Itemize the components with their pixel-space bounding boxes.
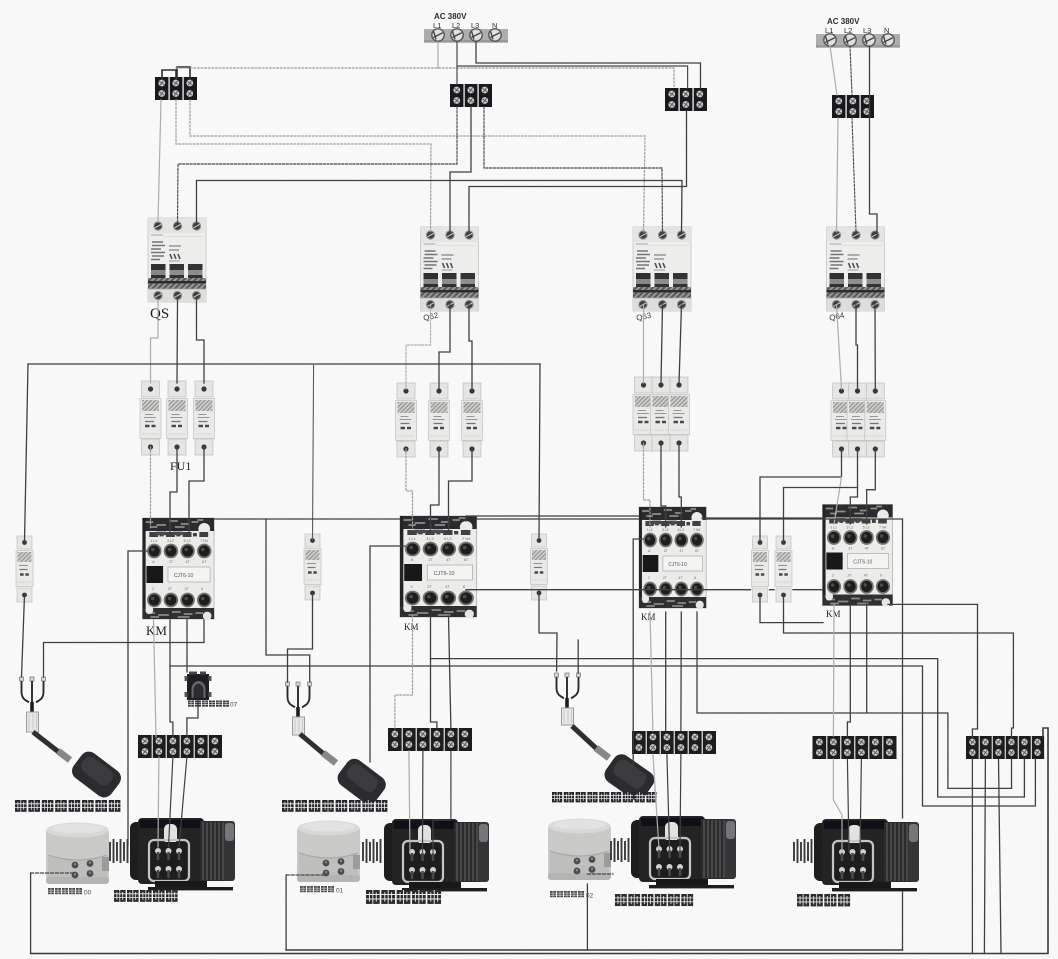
wire block2 to Q62 top-middle <box>450 107 471 233</box>
wire KM2 col2 to strip2 <box>431 659 437 728</box>
wire KM2 col2 long line to far strip <box>431 616 1025 797</box>
float sensor 1 rod and ball <box>33 732 125 801</box>
wire strip1 to motor1 pin1 <box>157 757 160 847</box>
wire strip4 to motor4 pin2 <box>847 759 849 852</box>
label thermal relay 02 <box>550 891 594 900</box>
thermal relay 02 <box>548 819 611 881</box>
circuit breaker Q64 <box>827 227 885 311</box>
coupling spring 2 <box>363 839 381 863</box>
label backup motor <box>797 894 850 906</box>
terminal strip ch4 <box>813 736 897 759</box>
label low water float sensor <box>15 800 120 812</box>
label high water motor <box>366 890 441 904</box>
contactor KM2 <box>400 516 477 618</box>
wire KM2 top right to KM3 <box>466 516 639 521</box>
wire switch 07 to strip1 <box>187 700 198 737</box>
wire control fuse ch4a to KM4 coil <box>760 595 823 623</box>
control fuse FU ch2 <box>304 534 321 600</box>
wire L1 strip1 down <box>437 42 439 68</box>
terminal block group 1 <box>155 77 197 100</box>
wire Q63 bottom-middle to fuse3 middle <box>661 305 663 383</box>
wire block1 to QS top-left <box>158 100 161 222</box>
wire dashed relay1 <box>31 872 75 874</box>
circuit breaker Q62 <box>421 227 479 311</box>
wire L2 stub to block2 <box>456 66 458 84</box>
wire strip4 to motor4 pin3 <box>860 759 861 852</box>
wire strip3 to motor3 pin1 light <box>653 754 659 849</box>
wire dashed block2 to Q63 top-middle <box>484 107 663 233</box>
wire strip2 to motor2 pin3 <box>433 751 451 852</box>
power terminal strip AC 380V (left) <box>424 12 508 43</box>
wire KM1 coil feed left <box>128 551 147 845</box>
terminal block group 3 <box>665 88 707 111</box>
wire strip1 to motor1 pin2 <box>169 757 173 847</box>
wire KM3 coil feed left <box>633 539 643 768</box>
wire block4 to Q64 top-middle <box>852 118 856 232</box>
contactor KM3 <box>639 507 706 609</box>
float sensor 2 rod and ball <box>300 734 389 808</box>
wire strip2 L3 to Q64 top-right <box>870 46 878 236</box>
terminal strip ch1 <box>138 735 222 758</box>
wire fuse4 middle tee to control fuse ch4b <box>784 449 858 542</box>
wire KM2 col4 to KM4 <box>466 589 823 591</box>
wire KM1 col2 to strip1 <box>170 666 173 737</box>
wire relay3 riser <box>586 884 588 950</box>
wire QS bottom-right to FU1 right <box>197 300 205 383</box>
fuse group 2 <box>396 383 417 457</box>
wire KM3 col2 to strip3 <box>665 612 667 731</box>
motor low water <box>130 818 235 890</box>
wire fuse4 middle to KM4 col2 <box>850 488 857 525</box>
wire control fuse ch3 to float3 <box>539 593 557 671</box>
wire L2 strip1 to block3 top-middle <box>457 42 688 88</box>
fuse group FU1 <box>140 381 161 455</box>
terminal block group 4 <box>832 95 874 118</box>
coupling spring 1 <box>110 839 128 863</box>
wire fuse4 right to KM4 col3 <box>867 449 876 524</box>
motor alarm water <box>631 816 736 888</box>
coupling spring 4 <box>794 839 812 863</box>
wire fuse4 left to KM4 col1 <box>834 477 842 524</box>
wire far strip drop 1 <box>971 759 973 954</box>
wire strip2 L1 to block4 <box>830 46 837 95</box>
wire KM4 bottom right to far strip <box>888 604 978 737</box>
label thermal relay 01 <box>300 886 344 895</box>
wire KM2 col1 to strip2 dotted <box>395 616 413 728</box>
terminal strip far right <box>966 736 1044 759</box>
power terminal strip AC 380V (right) <box>816 17 900 48</box>
wire fuse3 right to KM3 col3 <box>679 443 681 527</box>
label alarm water float sensor <box>552 792 657 802</box>
wire fuse3 left to KM3 col1 dotted <box>644 443 651 527</box>
wire Q62 bottom-left to fuse2 left <box>406 305 431 389</box>
label for switch 07 <box>188 701 238 709</box>
contactor KM1 <box>143 518 215 620</box>
wire block4 to Q64 top-left <box>837 118 839 232</box>
wire QS top-right to Q63 top-right <box>197 181 683 234</box>
contactor KM4 <box>823 505 893 607</box>
wire far strip drop 3 <box>999 759 1002 954</box>
wire strip2 to motor2 pin2 <box>422 751 424 852</box>
wire dashed relay2 <box>286 874 326 876</box>
wire KM4 col2 to strip4 <box>847 604 850 736</box>
control fuse FU ch4a <box>752 536 769 602</box>
wire float1 to KM1 col4 <box>44 620 205 677</box>
wire strip2 to motor2 pin1 light <box>409 751 410 852</box>
wire KM1 col1 to strip1 light <box>154 620 157 737</box>
float sensor 1 hanger <box>20 677 46 732</box>
wire FU1 left to KM1 col1 dotted <box>150 447 152 528</box>
wire control bus to fuse ch2 <box>313 364 314 540</box>
wire fuse4 left tee to control fuse ch4a <box>760 449 842 542</box>
wire KM3 col3 to strip3 <box>680 612 682 731</box>
wire fuse2 right to KM2 col3 <box>449 449 473 530</box>
wire KM3 right to KM4 <box>702 517 823 519</box>
thermal relay 01 <box>297 821 360 883</box>
wire strip3 to motor3 pin2 <box>667 754 670 849</box>
float sensor 3 rod and ball <box>572 726 658 804</box>
label alarm water motor <box>615 894 693 906</box>
control fuse FU ch1 <box>16 536 33 602</box>
wire dashed relay3 <box>587 873 613 875</box>
wire loop KM1 right to far bottom <box>214 519 903 950</box>
label low water motor <box>114 890 178 902</box>
wire dotted block1 to Q62 top-left <box>176 100 431 233</box>
float sensor 2 hanger <box>286 682 312 735</box>
wire strip2 L2 to block4 middle <box>850 46 852 95</box>
terminal strip ch3 <box>632 731 716 754</box>
terminal block group 2 <box>450 84 492 107</box>
wire FU1 middle to KM1 col2 <box>170 447 177 533</box>
wire KM3 col1 to strip3 light <box>650 612 653 731</box>
wire Q62 bottom-middle to fuse2 middle <box>439 305 450 389</box>
wire relay2 riser <box>285 875 287 950</box>
label high water float sensor <box>282 800 387 812</box>
wire strip3 to motor3 pin3 <box>679 754 682 849</box>
wire KM4 col1 to strip4 light <box>832 604 835 736</box>
wire dashed block2 to QS top-middle <box>178 107 458 222</box>
wire KM4 col3 to line <box>866 604 868 713</box>
wire Q62 top-right to block3 bottom-middle <box>469 111 687 233</box>
wire control bus to fuse ch1 <box>25 364 29 542</box>
wire L3 strip1 to block3 top-right <box>476 42 701 88</box>
wire dotted block1 to Q63 top-left <box>190 100 645 232</box>
wire Q62 bottom-right to fuse2 right <box>469 305 472 389</box>
wire far strip drop 2 <box>984 759 985 954</box>
fuse group 4 <box>831 383 852 457</box>
wire KM3 col4 long line to far strip <box>697 612 1012 788</box>
wire control bus to fuse ch3 <box>539 364 540 540</box>
control fuse FU ch4b <box>775 536 792 602</box>
wire fuse2 middle to KM2 col2 <box>431 449 440 530</box>
pushbutton switch 07 <box>185 672 212 701</box>
bottom bus wire A <box>286 949 902 951</box>
wire Q64 bottom-right to fuse4 right <box>874 305 876 389</box>
wire KM2 coil feed left <box>370 546 405 762</box>
float sensor 3 hanger <box>555 673 581 725</box>
wire control fuse ch4b to far strip <box>784 595 1014 737</box>
wire float3 stub <box>577 640 579 673</box>
wire Q64 bottom-middle to fuse4 middle <box>856 305 858 389</box>
label thermal relay 00 <box>48 888 92 897</box>
control fuse FU ch3 <box>531 534 548 600</box>
wire control fuse ch1 to float1 <box>22 595 25 677</box>
terminal strip ch2 <box>388 728 472 751</box>
circuit breaker Q63 <box>633 227 691 311</box>
wire QS bottom-left to FU1 left <box>151 300 159 383</box>
jumper wires on block 1 <box>162 67 190 79</box>
wire dotted bus to block3 top-left <box>176 68 674 88</box>
wire fuse2 left to KM2 col1 dotted <box>406 449 413 530</box>
coupling spring 3 <box>611 838 629 862</box>
bottom bus wire B <box>31 728 1048 954</box>
wire strip4 to motor4 pin1 light <box>833 759 842 852</box>
wire strip1 to motor1 pin3 <box>179 757 187 847</box>
wire float2 riser to loop <box>266 519 310 682</box>
circuit breaker QS <box>148 218 206 302</box>
wire fuse3 middle to KM3 col2 <box>661 443 666 527</box>
wire KM2 col3 to strip2 <box>449 616 451 728</box>
fuse group 3 <box>633 377 654 451</box>
control bus wire <box>28 363 540 365</box>
wire control fuse ch2 to float2 <box>288 593 313 682</box>
motor high water <box>384 819 489 891</box>
wire QS bottom-middle to FU1 middle <box>176 300 179 383</box>
wire FU1 right to KM1 col3 <box>189 447 204 533</box>
wire Q63 bottom-left to fuse3 left <box>643 305 645 383</box>
wire Q63 bottom-right to fuse3 right <box>679 305 682 383</box>
thermal relay 00 <box>46 823 109 885</box>
wire Q64 bottom-left to fuse4 left <box>837 305 842 389</box>
wire relay1 riser <box>30 873 32 954</box>
motor backup <box>814 819 919 891</box>
wire KM1 col3 to switch 07 <box>186 620 188 672</box>
wire KM1 col2 long line to far strip <box>170 620 1035 806</box>
